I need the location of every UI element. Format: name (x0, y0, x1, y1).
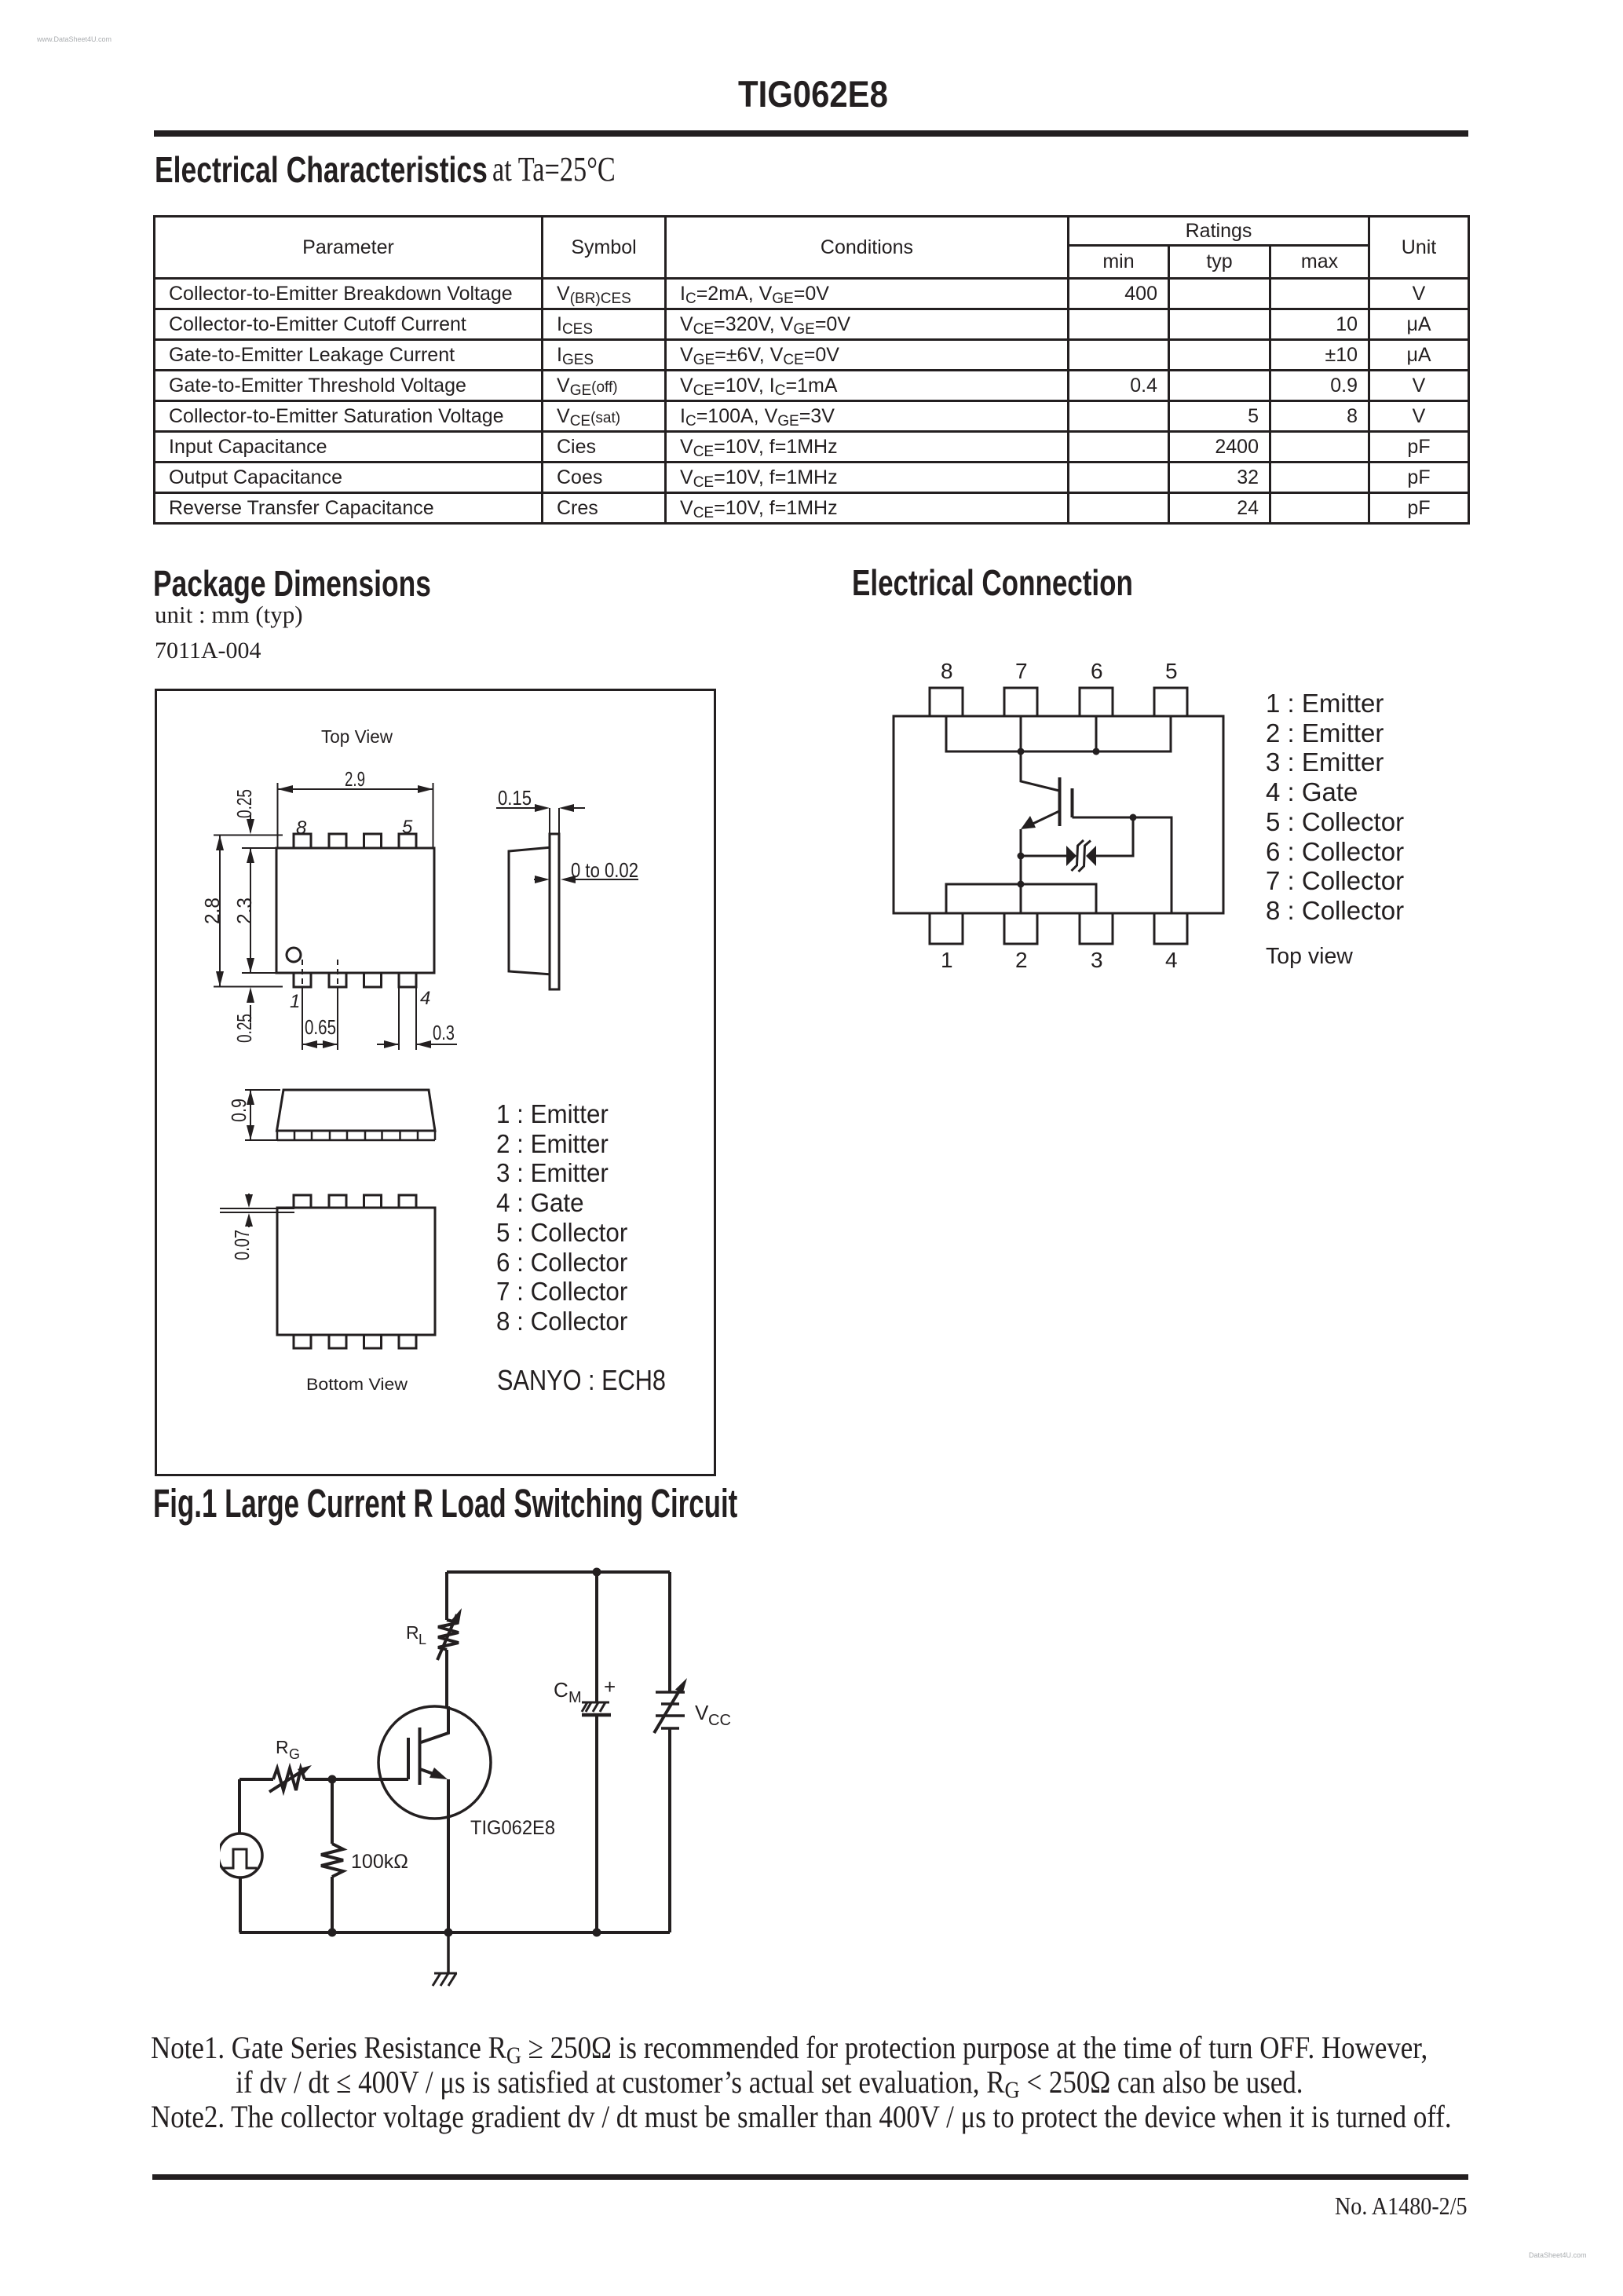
svg-text:V: V (695, 1701, 709, 1724)
svg-text:8: 8 (296, 817, 307, 839)
pin 1 pad (top view) (294, 973, 311, 987)
lateral side view body (277, 1090, 436, 1131)
bottom view top pads (294, 1195, 311, 1208)
wire RL top (445, 1572, 448, 1620)
heading: Fig.1 (153, 1480, 737, 1526)
pin 4 (bottom) (1154, 913, 1187, 944)
capacitor CM (582, 1702, 609, 1712)
top rule (154, 130, 1468, 137)
bottom return wire (239, 1931, 670, 1934)
svg-text:Top View: Top View (321, 726, 393, 747)
pin 7 pad (top view) (329, 834, 346, 848)
svg-text:L: L (419, 1632, 426, 1647)
pin 2 (bottom) (1004, 913, 1037, 944)
resistor RL (variable) (438, 1620, 459, 1650)
svg-text:1: 1 (941, 948, 953, 972)
pin 7 (top) (1004, 688, 1037, 716)
diode left lead (1021, 855, 1066, 857)
node: emitter / bottom wire (444, 1929, 453, 1937)
IGBT gate bar (1071, 788, 1074, 817)
gate wire to pin 4 (1073, 817, 1172, 913)
IGBT collector wire (1021, 751, 1059, 791)
svg-text:4: 4 (1165, 948, 1178, 972)
svg-text:R: R (406, 1622, 419, 1643)
IGBT base bar (1058, 777, 1062, 826)
svg-text:2.3: 2.3 (232, 898, 256, 924)
Q1 gate lead (332, 1778, 408, 1781)
package body outline (894, 716, 1223, 913)
pin 2 stub wire (1020, 884, 1022, 913)
svg-text:G: G (289, 1746, 300, 1762)
heading: Electrical Characteristics (155, 148, 488, 191)
pin 4 pad (top view) (399, 973, 416, 987)
wire CM top (595, 1572, 598, 1702)
node: 100k / bottom wire (328, 1929, 337, 1937)
side view body (509, 847, 552, 974)
pin 6 (top) (1080, 688, 1113, 716)
heading: Package Dimensions (153, 562, 431, 605)
IGBT emitter wire with arrow (1026, 811, 1059, 827)
ground stem (447, 1932, 450, 1973)
resistor RG (variable) (273, 1768, 305, 1790)
svg-text:0.15: 0.15 (498, 786, 532, 810)
package body (top view) (276, 848, 434, 973)
svg-text:2: 2 (1015, 948, 1028, 972)
heading: Electrical Connection (852, 561, 1133, 604)
svg-text:0.25: 0.25 (232, 789, 256, 818)
dim 0.3 (377, 987, 457, 1050)
pulse source V1 (218, 1834, 262, 1877)
svg-text:Bottom View: Bottom View (306, 1376, 408, 1394)
resistor 100k (321, 1844, 343, 1877)
pin 6 pad (top view) (364, 834, 382, 848)
pin 3 (bottom) (1080, 913, 1113, 944)
pin 5 (top) (1154, 688, 1187, 716)
svg-text:5: 5 (1165, 659, 1178, 683)
source VCC (variable) (656, 1692, 685, 1728)
title (738, 72, 888, 115)
svg-text:5: 5 (402, 817, 413, 838)
dim 0.25 top (250, 815, 251, 832)
svg-text:M: M (568, 1689, 582, 1706)
svg-text:2.8: 2.8 (200, 898, 224, 924)
pin 7 stub wire (1020, 716, 1022, 751)
dim 0.07 (220, 1194, 294, 1227)
top supply wire (447, 1570, 670, 1574)
svg-text:SANYO : ECH8: SANYO : ECH8 (497, 1364, 666, 1396)
notes (151, 2031, 1452, 2133)
collector bus wire (pins 5-8) (946, 716, 1171, 751)
Q1 gate bar (407, 1738, 410, 1779)
Q1 collector wire (421, 1706, 448, 1742)
lateral side view pin comb (277, 1131, 435, 1140)
wire pulse bottom (239, 1877, 242, 1932)
svg-text:0.25: 0.25 (232, 1014, 256, 1043)
svg-text:4: 4 (420, 988, 430, 1009)
svg-text:6: 6 (1091, 659, 1103, 683)
table (153, 215, 1470, 525)
junction at pin 6 (1093, 748, 1100, 755)
pin 5 pad (top view) (399, 834, 416, 848)
svg-text:2.9: 2.9 (345, 767, 365, 791)
svg-text:+: + (604, 1675, 616, 1698)
pin 1 index circle (287, 948, 301, 962)
svg-text:8: 8 (941, 659, 953, 683)
Q1 emitter wire with arrow (420, 1769, 442, 1777)
pin 2 pad (top view) (329, 973, 346, 987)
diode left anode triangle (1066, 846, 1077, 866)
pin 6 stub wire (1095, 716, 1098, 751)
package dimensions outline box (155, 689, 716, 1476)
wire VCC top (668, 1572, 671, 1692)
dim 2.8 (214, 835, 283, 987)
dim 0.65 (302, 960, 338, 1050)
svg-text:0.3: 0.3 (433, 1021, 455, 1044)
wire 100k top (331, 1779, 334, 1844)
transistor Q1 circle (TIG062E8) (378, 1706, 491, 1819)
dim 0.9 (245, 1090, 280, 1140)
svg-text:0.07: 0.07 (230, 1230, 254, 1260)
Q1 body bar (419, 1727, 422, 1785)
dim 2.9 arrow line (278, 783, 433, 848)
svg-text:CC: CC (708, 1712, 731, 1729)
emitter bus wire (pins 1-3) (946, 884, 1096, 913)
diode right lead (1096, 817, 1133, 856)
pin 8 (top) (930, 688, 963, 716)
svg-text:C: C (554, 1678, 568, 1702)
Q1 emitter vertical wire (447, 1779, 450, 1932)
pin 3 pad (top view) (364, 973, 382, 987)
emitter vertical wire (1020, 829, 1022, 884)
wire RL bottom (445, 1650, 448, 1706)
side view lead strip (550, 834, 559, 989)
svg-text:0.65: 0.65 (305, 1015, 336, 1039)
junction gate/diode (1130, 814, 1137, 821)
junction at pin 2 (1018, 881, 1025, 888)
wire VCC bottom (668, 1728, 671, 1932)
junction diode-emitter (1018, 853, 1025, 860)
wire from pulse source to RG (239, 1778, 273, 1781)
svg-text:1: 1 (290, 991, 300, 1012)
svg-text:0 to 0.02: 0 to 0.02 (571, 858, 638, 882)
dim 0.25 bottom (250, 1005, 251, 1022)
watermark top-left (37, 35, 111, 43)
svg-text:7: 7 (1015, 659, 1028, 683)
svg-text:100kΩ: 100kΩ (351, 1851, 408, 1873)
node: top wire / CM branch (593, 1568, 601, 1577)
dim 2.3 (242, 848, 276, 973)
junction at pin 7 (1018, 748, 1025, 755)
wire RG to gate (305, 1778, 332, 1781)
svg-text:TIG062E8: TIG062E8 (470, 1817, 555, 1839)
bottom view body (277, 1208, 435, 1335)
node: gate / 100k (328, 1775, 337, 1784)
wire 100k bottom (331, 1877, 334, 1932)
bottom rule (152, 2174, 1468, 2180)
wire CM bottom (595, 1715, 598, 1932)
svg-text:3: 3 (1091, 948, 1103, 972)
ground symbol (433, 1973, 457, 1986)
package pin list (496, 1099, 627, 1336)
bottom view bottom pads (294, 1335, 311, 1348)
pin 1 (bottom) (930, 913, 963, 944)
svg-text:0.9: 0.9 (227, 1099, 250, 1122)
node: CM / bottom wire (593, 1929, 601, 1937)
wire pulse top (238, 1779, 241, 1834)
diode cathode zig bars (1072, 840, 1091, 872)
pin list (electrical connection) (1266, 689, 1404, 926)
diode right anode triangle (1086, 846, 1096, 866)
svg-text:R: R (276, 1737, 289, 1757)
pin 8 pad (top view) (294, 834, 311, 848)
